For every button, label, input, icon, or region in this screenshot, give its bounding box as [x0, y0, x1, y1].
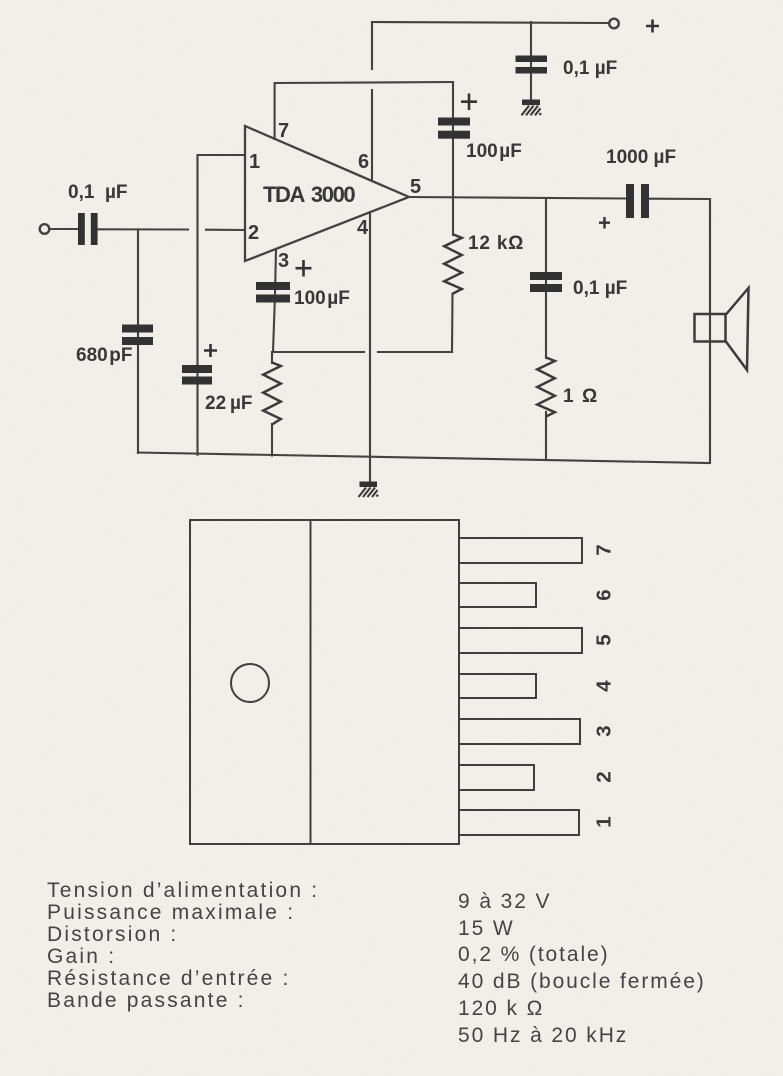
- svg-text:1000 µF: 1000 µF: [606, 147, 676, 168]
- wire: output from pin 5 to 1000uF: [409, 197, 626, 199]
- package pin 1: [459, 810, 579, 835]
- svg-text:5: 5: [593, 634, 616, 645]
- svg-text:50 Hz à 20 kHz: 50 Hz à 20 kHz: [458, 1024, 628, 1047]
- svg-text:Distorsion :: Distorsion :: [47, 923, 178, 946]
- svg-text:0,2 % (totale): 0,2 % (totale): [458, 943, 610, 966]
- wire: bottom ground rail: [138, 453, 710, 464]
- svg-text:4: 4: [357, 217, 369, 239]
- input terminal: [40, 224, 50, 234]
- wire: feedback horizontal (hops over pin-4 line): [273, 351, 452, 353]
- svg-text:Tension d’alimentation :: Tension d’alimentation :: [47, 879, 319, 902]
- ground (pin 4 / main): [359, 482, 379, 498]
- svg-text:6: 6: [358, 151, 369, 173]
- svg-text:6: 6: [593, 589, 616, 600]
- svg-text:Résistance d’entrée :: Résistance d’entrée :: [47, 967, 290, 990]
- svg-text:100 µF: 100 µF: [466, 141, 522, 162]
- svg-text:2: 2: [248, 222, 259, 244]
- svg-text:5: 5: [410, 176, 421, 198]
- svg-text:Gain :: Gain :: [47, 945, 116, 968]
- svg-text:4: 4: [593, 680, 616, 692]
- svg-text:680 pF: 680 pF: [76, 345, 133, 366]
- svg-text:3: 3: [278, 250, 289, 272]
- wire: right rail down to speaker and ground rail: [709, 199, 711, 462]
- wire: supply rail down to pin 6 (hops over pin-7 wire): [371, 22, 373, 179]
- package pin 4: [459, 674, 536, 698]
- svg-text:3: 3: [593, 725, 616, 736]
- resistor feedback (unlabelled): [263, 363, 281, 425]
- wire: bootstrap cap vertical to output: [452, 82, 454, 198]
- package pin 2: [459, 765, 534, 790]
- svg-text:40 dB (boucle fermée): 40 dB (boucle fermée): [458, 970, 706, 993]
- plus sign at bootstrap 100uF: [461, 94, 477, 111]
- package pin 5: [459, 628, 582, 653]
- svg-text:0,1 µF: 0,1 µF: [573, 278, 627, 299]
- svg-text:7: 7: [278, 120, 289, 142]
- package divider line: [310, 520, 312, 844]
- supply terminal: [609, 19, 619, 29]
- wire: pin 1 left and down to 22uF: [198, 155, 246, 455]
- spec table left column: [47, 879, 319, 1012]
- IC package body: [190, 520, 459, 844]
- plus sign at 22uF: [204, 344, 217, 357]
- plus sign at supply terminal: [646, 20, 659, 33]
- wire: 1 ohm bottom lead: [545, 412, 547, 460]
- capacitor 100uF pin3 plates: [256, 282, 290, 303]
- speaker LS: [695, 288, 749, 370]
- svg-text:Puissance maximale :: Puissance maximale :: [47, 901, 295, 924]
- package mounting hole: [231, 664, 269, 702]
- svg-text:Bande passante :: Bande passante :: [47, 989, 246, 1012]
- capacitor 680pF plates: [122, 325, 153, 346]
- wire: pin 7 up and across to bootstrap cap: [275, 82, 453, 139]
- capacitor 0,1uF input coupling (vertical plates): [78, 213, 98, 245]
- svg-text:0,1 µF: 0,1 µF: [68, 182, 128, 203]
- svg-text:0,1 µF: 0,1 µF: [563, 58, 617, 79]
- wire: pin 3 down through 100uF to feedback node: [273, 249, 276, 352]
- spec table right column: [458, 890, 706, 1047]
- svg-text:1 Ω: 1 Ω: [563, 386, 599, 407]
- capacitor 1000uF output (vertical plates): [626, 184, 649, 218]
- wire: coupling cap to pin 2 (hops over pin-1 wire): [98, 228, 245, 231]
- svg-text:100 µF: 100 µF: [294, 288, 350, 309]
- capacitor 0,1uF zobel plates: [530, 272, 562, 292]
- wire: top supply rail: [372, 22, 609, 23]
- svg-text:1: 1: [593, 816, 616, 827]
- wire: pin 4 down to ground symbol: [369, 212, 371, 481]
- wire: 12k bottom lead: [451, 294, 454, 353]
- package pin 7: [459, 538, 582, 563]
- svg-text:1: 1: [249, 151, 260, 173]
- wire: 1000uF to output corner: [649, 198, 710, 200]
- package pin 3: [459, 719, 580, 744]
- plus sign at pin3 100uF: [296, 260, 312, 277]
- svg-text:12 kΩ: 12 kΩ: [468, 233, 524, 254]
- svg-text:120 k Ω: 120 k Ω: [458, 997, 544, 1020]
- svg-text:9 à 32 V: 9 à 32 V: [458, 890, 551, 913]
- ground (supply decoupling): [522, 100, 542, 116]
- wire: input terminal to coupling cap: [49, 228, 78, 230]
- svg-text:2: 2: [593, 771, 616, 782]
- svg-text:TDA 3000: TDA 3000: [263, 182, 355, 207]
- wire: 680pF branch down from input node: [137, 229, 139, 453]
- wire: zobel branch down from output: [545, 198, 547, 358]
- op-amp U1 TDA3000 triangle: [245, 126, 409, 261]
- package pin 6: [459, 583, 536, 607]
- svg-text:15 W: 15 W: [458, 917, 515, 940]
- resistor 12k: [444, 235, 462, 294]
- resistor 1 ohm: [537, 358, 555, 417]
- wire: feedback node down through resistor lead: [271, 352, 273, 363]
- wire: 12k top lead from output: [452, 198, 454, 236]
- svg-text:7: 7: [593, 544, 616, 555]
- svg-text:22 µF: 22 µF: [205, 393, 253, 414]
- capacitor 0,1uF supply decoupling plates: [516, 56, 548, 74]
- wire: decoupling cap drop from rail to ground: [530, 22, 532, 99]
- wire: feedback resistor bottom to ground rail: [271, 424, 273, 456]
- plus sign at 1000uF: [599, 217, 610, 229]
- capacitor 100uF bootstrap plates: [438, 118, 470, 139]
- capacitor 22uF plates: [182, 365, 212, 385]
